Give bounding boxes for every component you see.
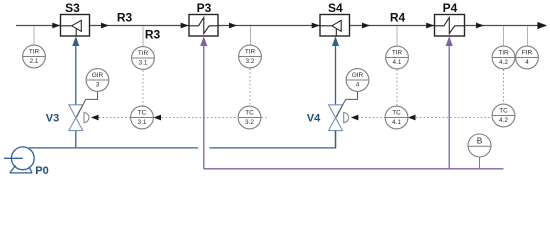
svg-text:P0: P0 bbox=[35, 165, 48, 177]
svg-text:R3: R3 bbox=[117, 11, 133, 25]
arrow at line end bbox=[537, 22, 547, 29]
instrument GIR 3 bbox=[86, 69, 109, 92]
purple arrow into P4 bbox=[446, 36, 453, 46]
svg-text:P4: P4 bbox=[443, 1, 458, 15]
valve V3 actuator bbox=[84, 112, 89, 122]
instrument TIR 3.1 bbox=[132, 47, 155, 70]
arrow into P4 bbox=[426, 23, 434, 29]
svg-text:3.2: 3.2 bbox=[245, 119, 254, 126]
dashed signal TIR4.1 to TC4.1 bbox=[396, 70, 398, 107]
valve V4 actuator bbox=[344, 112, 349, 122]
connector B to purple line bbox=[479, 157, 481, 169]
svg-text:S3: S3 bbox=[65, 1, 80, 15]
arrow into V4 actuator bbox=[351, 115, 359, 121]
dashed signal TIR3.1 to TC3.1 bbox=[142, 71, 144, 107]
purple arrow into P3 bbox=[200, 36, 207, 46]
svg-text:4.1: 4.1 bbox=[392, 119, 401, 126]
instrument FIR 4 bbox=[516, 46, 539, 69]
svg-text:TC: TC bbox=[138, 109, 147, 116]
purple supply riser to P3 bbox=[203, 45, 205, 169]
controller TC 4.2 bbox=[492, 104, 515, 127]
arrow into TC4.1 bbox=[408, 115, 416, 121]
controller TC 3.1 bbox=[131, 106, 154, 129]
wire main flow line segment 2 bbox=[90, 25, 190, 27]
arrow after P4 bbox=[476, 23, 484, 29]
svg-text:2.1: 2.1 bbox=[30, 58, 39, 65]
svg-text:TIR: TIR bbox=[245, 48, 256, 55]
connector GIR3 to V3 bbox=[77, 91, 98, 117]
svg-text:TIR: TIR bbox=[392, 49, 403, 56]
dashed signal TIR4.2 to TC4.2 bbox=[503, 70, 505, 105]
arrow after P3 bbox=[229, 23, 237, 29]
arrow after S4 bbox=[362, 23, 370, 29]
svg-text:TC: TC bbox=[245, 109, 254, 116]
instrument TIR 3.2 bbox=[239, 45, 262, 68]
node TIR2.1 tap bbox=[33, 26, 35, 46]
controller TC 3.2 bbox=[238, 106, 261, 129]
wire main flow line segment 3 bbox=[218, 25, 320, 27]
purple supply bottom line bbox=[204, 168, 504, 170]
connector GIR4 to V4 bbox=[336, 91, 357, 117]
dashed signal TC4.2 to TC4.1 bbox=[416, 117, 492, 119]
instrument TIR 4.2 bbox=[492, 46, 515, 69]
node TIR4.1 tap bbox=[396, 26, 398, 46]
dashed signal TC3.1 to V3 bbox=[99, 117, 131, 119]
svg-text:4: 4 bbox=[356, 82, 360, 89]
wire main flow line segment 4 bbox=[350, 25, 435, 27]
instrument GIR 4 bbox=[346, 69, 369, 92]
svg-text:TIR: TIR bbox=[498, 49, 509, 56]
node TIR4.2 tap bbox=[503, 26, 505, 46]
node TIR3.2 tap bbox=[250, 26, 252, 46]
svg-text:GIR: GIR bbox=[352, 72, 364, 79]
svg-text:S4: S4 bbox=[328, 1, 343, 15]
svg-text:R3: R3 bbox=[145, 28, 161, 42]
svg-text:TC: TC bbox=[499, 107, 508, 114]
dashed signal TC3.2 to TC3.1 bbox=[162, 117, 238, 119]
svg-text:TC: TC bbox=[392, 109, 401, 116]
node TIR3.1 tap bbox=[142, 26, 144, 47]
blue process line from pump (right part to V4 riser) bbox=[210, 131, 336, 148]
instrument TIR 2.1 bbox=[23, 45, 46, 68]
svg-text:GIR: GIR bbox=[92, 72, 104, 79]
svg-text:P3: P3 bbox=[197, 1, 212, 15]
component S4 box bbox=[320, 15, 350, 37]
svg-text:R4: R4 bbox=[390, 11, 406, 25]
svg-text:3.2: 3.2 bbox=[246, 58, 255, 65]
instrument B bbox=[468, 134, 491, 157]
svg-text:4.2: 4.2 bbox=[499, 117, 508, 124]
component S3 box bbox=[61, 15, 90, 37]
controller TC 4.1 bbox=[385, 106, 408, 129]
valve V3 bbox=[69, 105, 83, 131]
wire main flow line segment 5 bbox=[465, 25, 546, 27]
component P4 box (heater) bbox=[435, 15, 465, 37]
instrument TIR 4.1 bbox=[386, 46, 409, 69]
node FIR4 tap bbox=[527, 26, 529, 46]
blue process line from pump (left part) bbox=[29, 147, 198, 149]
valve V4 bbox=[329, 105, 343, 131]
pump P0 bbox=[4, 147, 34, 173]
svg-text:FIR: FIR bbox=[522, 49, 533, 56]
svg-text:4.1: 4.1 bbox=[393, 59, 402, 66]
dashed signal TIR3.2 to TC3.2 bbox=[249, 69, 251, 107]
arrow into S3 bbox=[52, 23, 60, 29]
svg-text:V4: V4 bbox=[307, 112, 321, 124]
svg-text:TIR: TIR bbox=[29, 48, 40, 55]
purple supply riser to P4 bbox=[448, 45, 450, 169]
svg-text:3: 3 bbox=[96, 82, 100, 89]
svg-text:3.1: 3.1 bbox=[138, 119, 147, 126]
svg-text:3.1: 3.1 bbox=[139, 60, 148, 67]
dashed signal TC4.1 to V4 bbox=[358, 117, 386, 119]
component P3 box (heater) bbox=[189, 15, 218, 37]
blue arrow into S4 bbox=[332, 36, 339, 46]
blue arrow into S3 bbox=[72, 36, 79, 46]
svg-text:V3: V3 bbox=[46, 112, 59, 124]
arrow into P3 bbox=[181, 23, 189, 29]
wire main flow line segment 1 bbox=[16, 25, 60, 27]
arrow after S3 bbox=[101, 23, 109, 29]
arrow into S4 bbox=[312, 23, 320, 29]
arrow into TC3.1 bbox=[154, 115, 162, 121]
arrow into V3 actuator bbox=[91, 115, 99, 121]
svg-text:TIR: TIR bbox=[138, 50, 149, 57]
blue supply riser to S3 with valve V3 bbox=[75, 45, 77, 148]
svg-text:B: B bbox=[477, 136, 483, 146]
svg-text:4.2: 4.2 bbox=[499, 59, 508, 66]
blue supply riser to S4 with valve V4 bbox=[335, 45, 337, 148]
dashed signal stub right of TC3.2 bbox=[262, 117, 267, 119]
svg-text:4: 4 bbox=[525, 59, 529, 66]
